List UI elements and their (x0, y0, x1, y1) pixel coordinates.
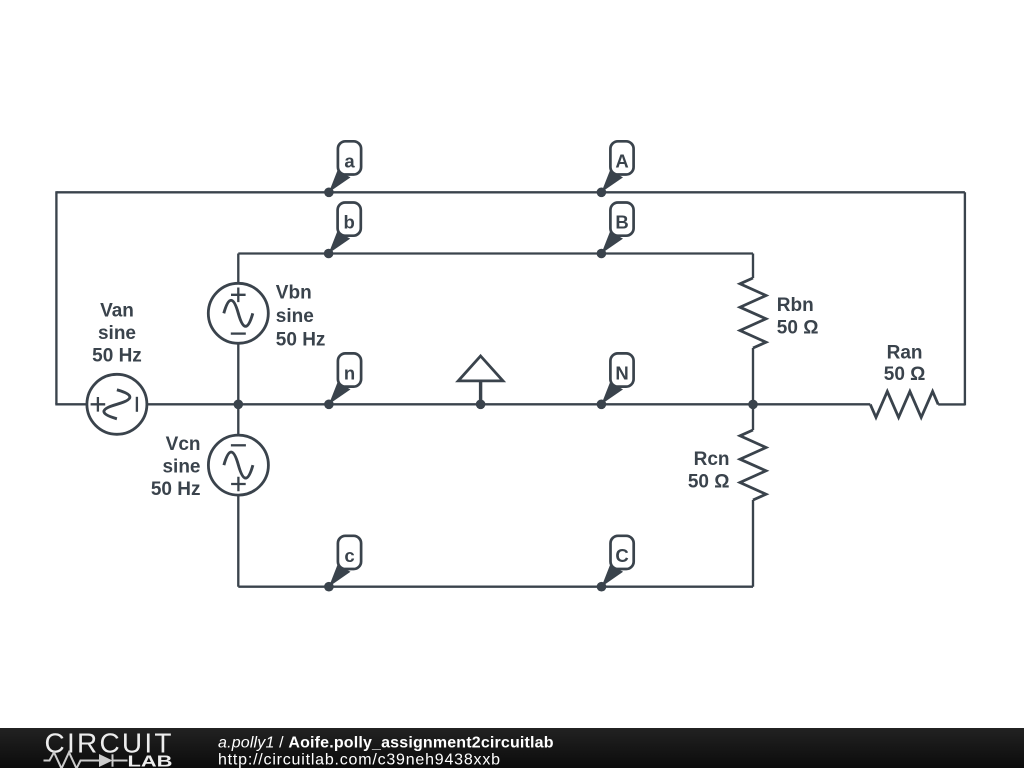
svg-text:B: B (615, 212, 628, 233)
wire b to Vbn top (237, 254, 239, 284)
svg-text:50 Ω: 50 Ω (688, 472, 730, 493)
svg-text:a.polly1 / Aoife.polly_assignm: a.polly1 / Aoife.polly_assignment2circui… (218, 734, 554, 751)
svg-text:b: b (344, 212, 355, 233)
wire middle n (238, 403, 870, 405)
label Ran 50 ohm (884, 343, 926, 386)
resistor Ran (870, 391, 938, 417)
footer bar (0, 728, 1024, 768)
wire Vcn bottom to c (237, 495, 239, 587)
wire top a (56, 191, 965, 193)
svg-text:C: C (615, 545, 628, 566)
svg-text:50 Hz: 50 Hz (151, 479, 201, 500)
resistor Rbn (740, 278, 766, 348)
wire Rcn bottom to c (752, 500, 754, 587)
wire b to Rbn top (752, 254, 754, 279)
wire mid junction to Rcn top (752, 404, 754, 430)
svg-text:50 Ω: 50 Ω (884, 364, 926, 385)
svg-text:sine: sine (276, 306, 314, 327)
node label c (329, 536, 361, 587)
wire middle left stub (55, 403, 87, 405)
junction dot node N (597, 400, 607, 410)
svg-text:Rbn: Rbn (777, 295, 814, 316)
wire Rbn bottom to mid junction (752, 348, 754, 404)
node label C (602, 536, 634, 587)
junction dot node B (597, 249, 607, 259)
node label a (329, 141, 361, 192)
node label N (601, 353, 633, 404)
junction dot node n (324, 400, 334, 410)
node label b (329, 203, 361, 254)
junction dot node a (324, 188, 334, 198)
junction dot Rbn-Rcn (748, 400, 758, 410)
svg-text:a: a (344, 150, 355, 171)
junction dot node A (597, 188, 607, 198)
svg-text:50 Ω: 50 Ω (777, 318, 819, 339)
ground symbol (458, 356, 503, 404)
svg-text:http://circuitlab.com/c39neh94: http://circuitlab.com/c39neh9438xxb (218, 752, 500, 768)
junction dot node b (324, 249, 334, 259)
voltage source Vbn (208, 283, 268, 343)
wire Van to junction (148, 403, 239, 405)
svg-text:n: n (344, 362, 355, 383)
label Rcn 50 ohm (688, 449, 730, 493)
svg-text:A: A (615, 150, 628, 171)
label Vcn sine 50 Hz (151, 434, 201, 500)
svg-text:LAB: LAB (128, 753, 173, 768)
voltage source Van (87, 374, 147, 434)
svg-text:sine: sine (98, 323, 136, 344)
voltage source Vcn (208, 435, 268, 495)
svg-text:Vbn: Vbn (276, 282, 312, 303)
svg-text:Ran: Ran (887, 343, 923, 364)
label Van sine 50 Hz (92, 301, 142, 367)
svg-text:sine: sine (162, 457, 200, 478)
svg-text:50 Hz: 50 Hz (92, 346, 142, 367)
junction dot node C (597, 582, 607, 592)
wire b (238, 252, 753, 254)
junction dot ground (476, 400, 486, 410)
node label A (601, 141, 633, 192)
logo resistor-diode symbol (44, 752, 128, 768)
node label n (329, 353, 361, 404)
svg-text:Rcn: Rcn (694, 449, 730, 470)
svg-text:50 Hz: 50 Hz (276, 329, 326, 350)
label Vbn sine 50 Hz (276, 282, 326, 350)
wire right vertical (964, 192, 966, 405)
svg-text:Vcn: Vcn (166, 434, 201, 455)
svg-text:N: N (615, 362, 628, 383)
node label B (601, 203, 633, 254)
junction dot node c (324, 582, 334, 592)
svg-text:c: c (344, 545, 354, 566)
label Rbn 50 ohm (777, 295, 819, 339)
svg-text:Van: Van (100, 301, 134, 322)
wire left vertical (55, 191, 57, 404)
junction dot Van-Vbn-Vcn (234, 400, 244, 410)
wire c (238, 586, 753, 588)
resistor Rcn (740, 430, 766, 500)
wire Ran to right corner (938, 403, 965, 405)
wire Vbn bottom to Vcn top (237, 344, 239, 436)
